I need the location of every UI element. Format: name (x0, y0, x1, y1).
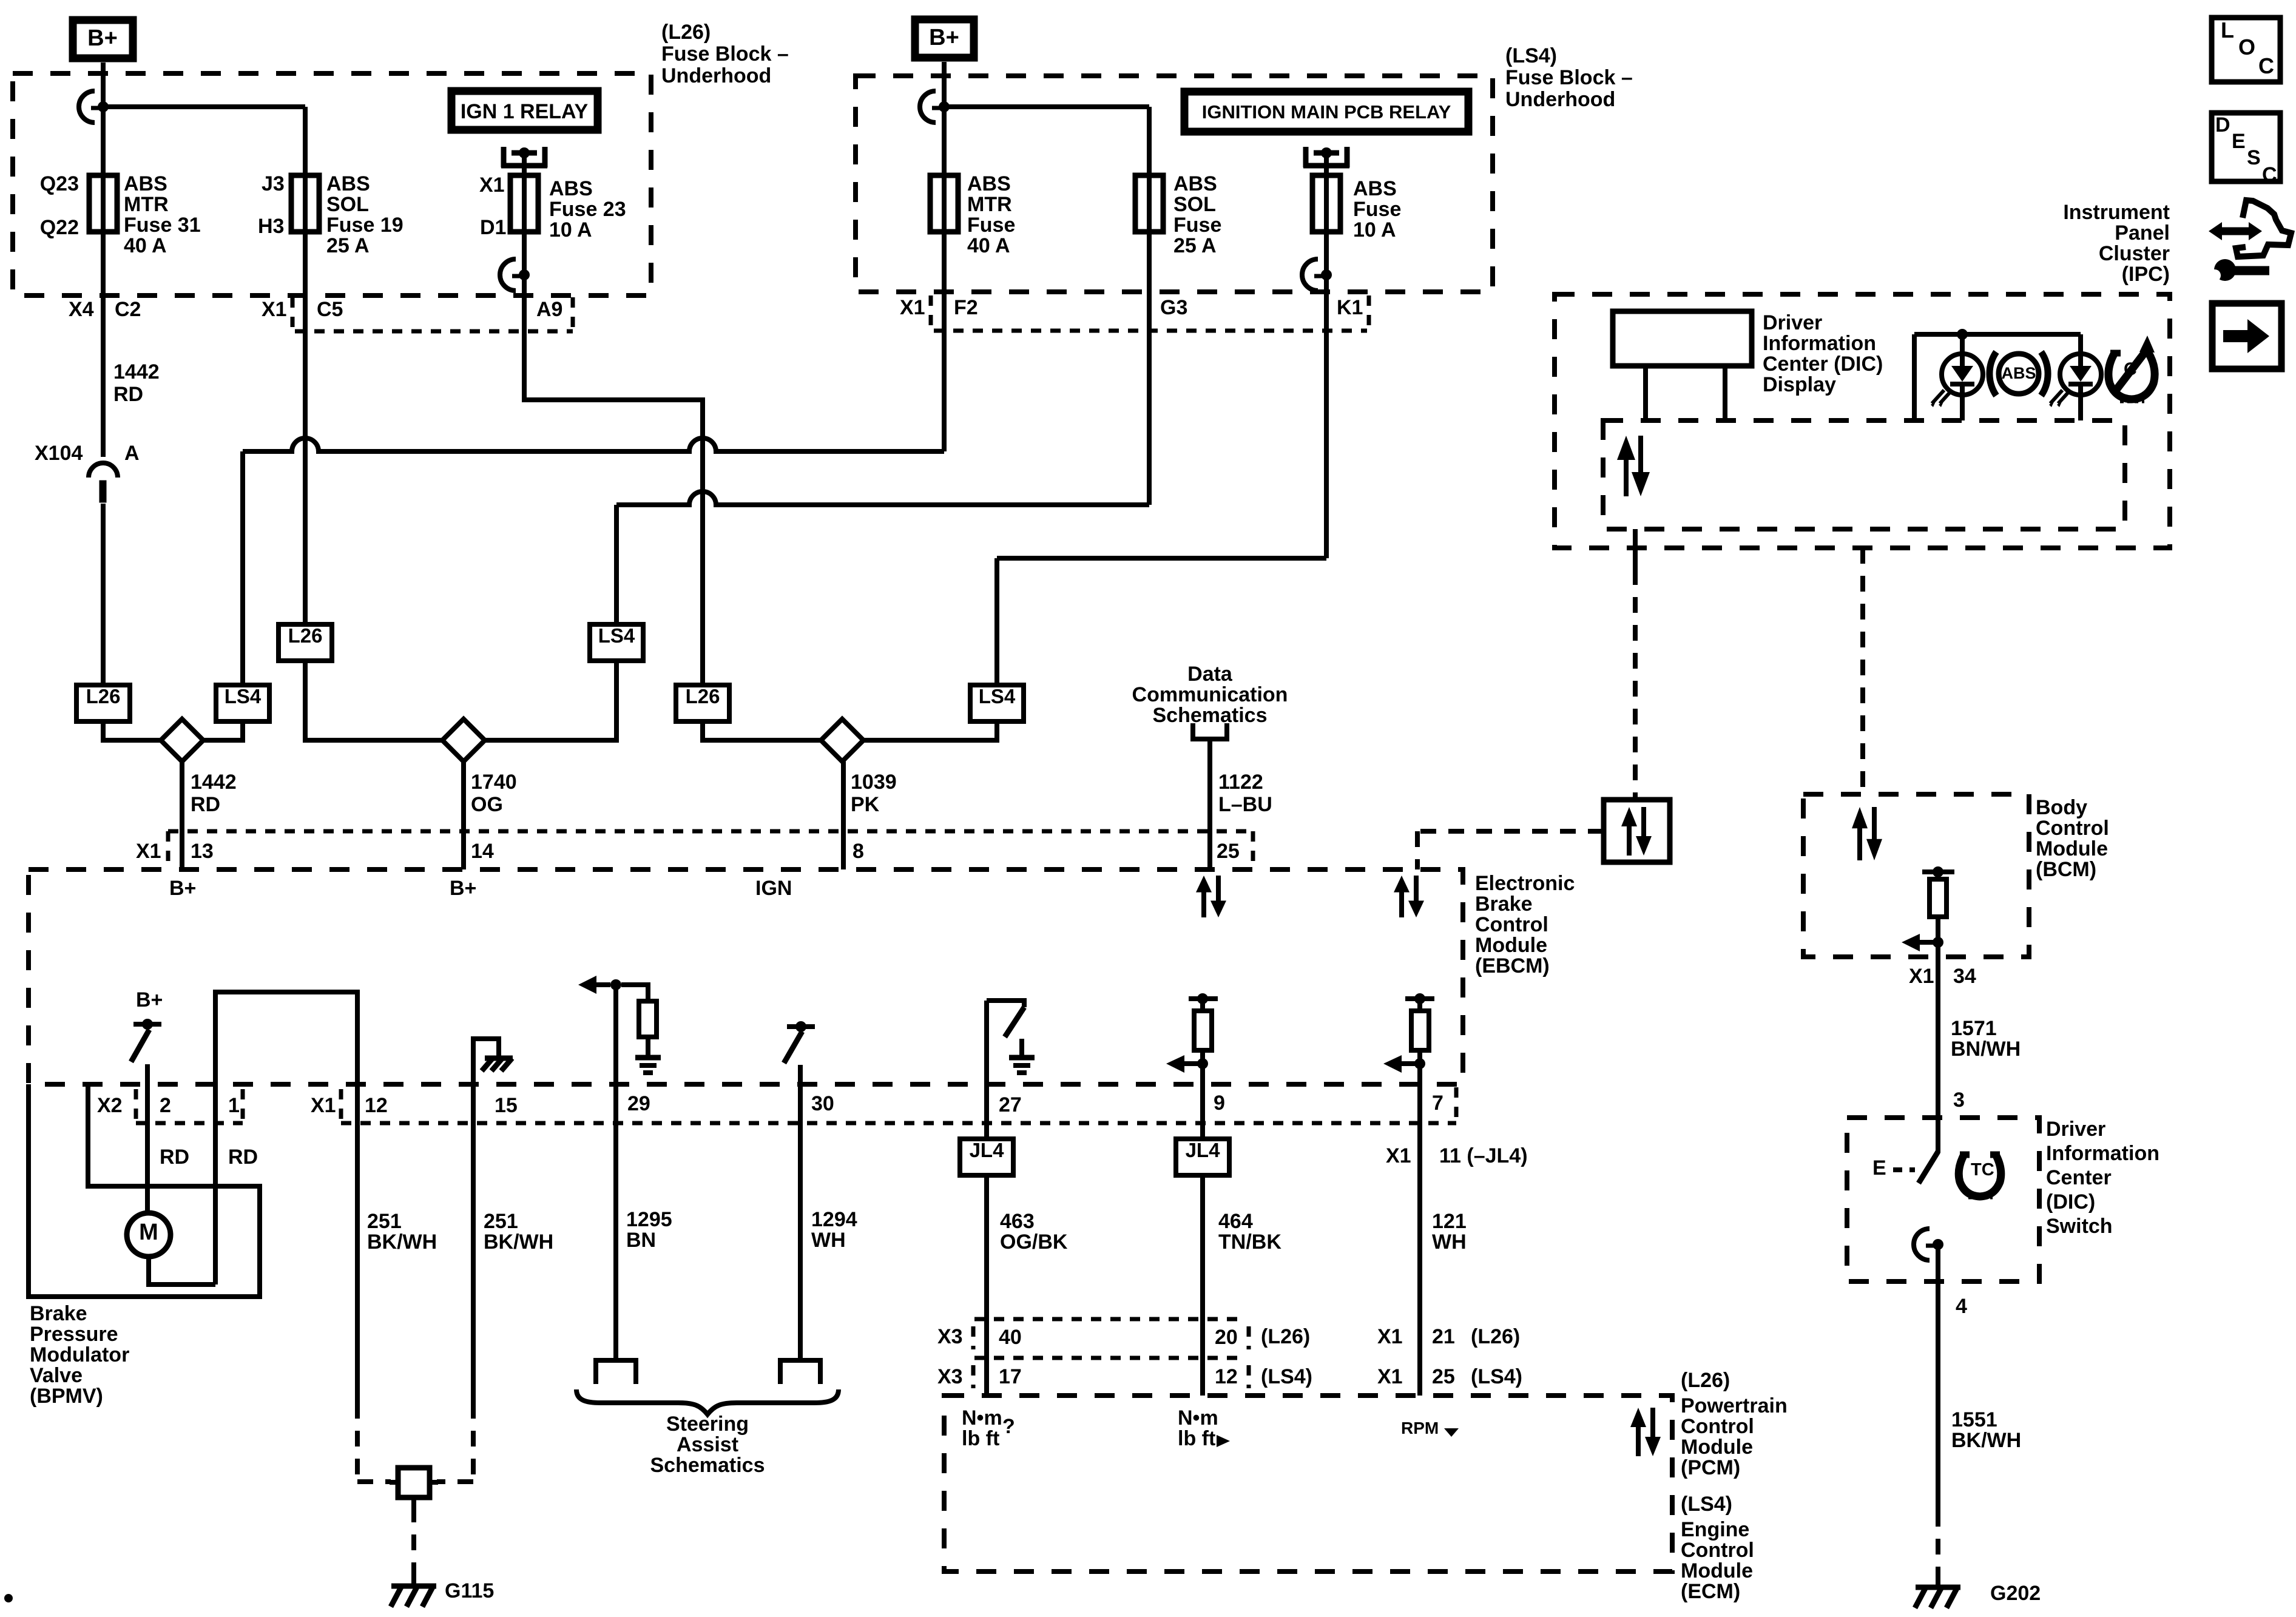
fuse block underhood dashed box (LS4) (856, 76, 1493, 292)
svg-text:Driver: Driver (1763, 311, 1822, 334)
wire LS4 tag column up to feed (240, 451, 245, 685)
node LS4 B+ junction (939, 101, 950, 112)
EBCM pin 9 internal resistor with level arrow (1189, 996, 1218, 1001)
wire relay contact to ABS Fuse 23 (522, 153, 527, 175)
svg-text:Fuse Block –: Fuse Block – (1505, 66, 1633, 89)
svg-text:Fuse: Fuse (1173, 214, 1221, 237)
connector arc below fuse 23 (500, 259, 516, 291)
wire horizontal feed 2 to LS4 tag 2 (with wire hop) (616, 491, 1149, 505)
svg-text:B+: B+ (929, 25, 959, 50)
Powertrain/Engine control module dashed box (PCM/ECM) (944, 1396, 1672, 1571)
svg-text:OG: OG (471, 793, 503, 816)
legend box DESC (2212, 113, 2280, 181)
svg-text:D1: D1 (480, 216, 506, 239)
svg-text:Q23: Q23 (40, 172, 79, 195)
fuse LS4 ABS MTR Fuse 40A (942, 175, 947, 232)
ground G115 (411, 1574, 416, 1585)
wire EBCM pin 7 / 121 WH down to PCM (1417, 1064, 1422, 1396)
svg-text:X4: X4 (69, 298, 94, 321)
svg-text:Control: Control (2036, 817, 2109, 840)
svg-text:Center (DIC): Center (DIC) (1763, 353, 1883, 376)
wire switch to BPMV pin 2 (145, 1064, 150, 1213)
svg-text:RD: RD (160, 1146, 189, 1169)
svg-text:S: S (2247, 146, 2261, 169)
wire fuse 23 to lower relay connector (522, 232, 527, 275)
svg-text:MTR: MTR (124, 193, 169, 216)
svg-text:25 A: 25 A (326, 234, 370, 257)
svg-text:B+: B+ (136, 988, 163, 1011)
svg-text:11 (–JL4): 11 (–JL4) (1439, 1144, 1528, 1167)
svg-text:Control: Control (1681, 1539, 1754, 1562)
svg-text:13: 13 (191, 840, 214, 863)
svg-text:G202: G202 (1990, 1582, 2041, 1605)
wire junction down to ABS MTR fuse (101, 107, 106, 175)
svg-text:E: E (2232, 130, 2246, 153)
svg-text:Fuse 19: Fuse 19 (326, 214, 403, 237)
svg-text:1294: 1294 (811, 1208, 857, 1231)
svg-text:Switch: Switch (2046, 1215, 2113, 1238)
off-page bracket steering assist right (780, 1360, 820, 1384)
wire junction down to LS4 ABS MTR fuse (942, 107, 947, 175)
Brake Pressure Modulator Valve solid outline (BPMV) (29, 1084, 260, 1297)
svg-text:RD: RD (228, 1146, 258, 1169)
off-page bracket for data communication (1190, 723, 1195, 739)
svg-text:G3: G3 (1160, 296, 1187, 319)
svg-text:Instrument: Instrument (2063, 201, 2170, 224)
svg-text:(BCM): (BCM) (2036, 858, 2096, 881)
svg-text:ABS: ABS (549, 177, 593, 200)
svg-text:O: O (2238, 35, 2255, 59)
svg-text:X1: X1 (1909, 965, 1934, 988)
svg-text:X1: X1 (900, 296, 925, 319)
svg-text:14: 14 (471, 840, 494, 863)
svg-text:1551: 1551 (1951, 1408, 1997, 1431)
svg-text:1: 1 (228, 1094, 240, 1117)
svg-text:Module: Module (1681, 1559, 1753, 1582)
svg-text:RPM: RPM (1401, 1419, 1439, 1437)
svg-text:LS4: LS4 (979, 685, 1016, 707)
svg-text:OG/BK: OG/BK (1000, 1230, 1068, 1254)
junction diamond 1039 PK (821, 719, 863, 761)
power feed B+ terminal box (LS4) (915, 19, 974, 58)
svg-text:25: 25 (1217, 840, 1240, 863)
svg-text:E: E (1872, 1156, 1886, 1180)
EBCM X1 top connector dotted line (166, 831, 171, 862)
svg-text:Fuse 23: Fuse 23 (549, 198, 626, 221)
svg-text:3: 3 (1953, 1089, 1965, 1112)
svg-text:(BPMV): (BPMV) (30, 1385, 103, 1408)
svg-text:lb ft: lb ft (1178, 1427, 1215, 1450)
wire LS4 ABS fuse to lower connector (1324, 232, 1329, 275)
IPC data-link arrows (1624, 459, 1629, 496)
svg-text:RD: RD (191, 793, 220, 816)
wire 1571 BN/WH BCM to DIC switch (1936, 957, 1940, 1118)
svg-text:(LS4): (LS4) (1681, 1493, 1732, 1516)
svg-text:Brake: Brake (30, 1302, 87, 1325)
page artifact dot bottom left (4, 1594, 13, 1602)
brace for steering assist schematics (576, 1389, 839, 1414)
svg-text:L26: L26 (686, 685, 720, 707)
svg-text:WH: WH (1432, 1230, 1467, 1254)
svg-text:8: 8 (853, 840, 864, 863)
svg-text:251: 251 (484, 1210, 518, 1233)
svg-text:G115: G115 (445, 1579, 494, 1602)
svg-text:Fuse: Fuse (1353, 198, 1401, 221)
svg-text:(LS4): (LS4) (1471, 1365, 1522, 1388)
svg-text:BN/WH: BN/WH (1951, 1038, 2021, 1061)
EBCM pump motor relay contact bar (133, 1022, 161, 1027)
node indicator feed (1957, 329, 1968, 340)
svg-text:(LS4): (LS4) (1261, 1365, 1312, 1388)
wire L26 tag2 to diamond 2 (305, 661, 442, 740)
svg-text:463: 463 (1000, 1210, 1035, 1233)
svg-text:Communication: Communication (1132, 683, 1288, 706)
svg-text:12: 12 (365, 1094, 388, 1117)
svg-text:25 A: 25 A (1173, 234, 1217, 257)
wire EBCM pin 29 down (613, 985, 618, 1360)
wire X104 down to L26 splice tag (101, 504, 106, 685)
power feed B+ terminal box (L26) (73, 20, 133, 58)
svg-text:L: L (2221, 18, 2234, 42)
dashed data line to EBCM (1417, 829, 1604, 834)
svg-text:10 A: 10 A (1353, 218, 1396, 241)
relay contact for IGN 1 RELAY (501, 147, 507, 167)
svg-text:B+: B+ (87, 25, 118, 51)
svg-text:25: 25 (1432, 1365, 1455, 1388)
svg-text:Information: Information (1763, 332, 1876, 355)
svg-text:Fuse 31: Fuse 31 (124, 214, 201, 237)
svg-text:?: ? (1002, 1415, 1015, 1438)
Driver Information Center switch dashed box (DIC) (1847, 1118, 2039, 1281)
indicator LED TC warning (2060, 354, 2101, 395)
wire G3 down to horizontal feed 2 (1147, 232, 1152, 505)
svg-text:Modulator: Modulator (30, 1343, 129, 1366)
ground bars EBCM pin27 branch (1019, 1039, 1024, 1056)
IPC data-link stem (1633, 529, 1638, 569)
splice tag L26 on 1039 PK wire (676, 685, 729, 721)
svg-text:7: 7 (1432, 1092, 1443, 1115)
splice tag LS4 on 1740 OG wire (590, 624, 643, 661)
legend icon vehicle with arrow and wrench (2236, 200, 2291, 257)
wire diamond1 to EBCM pin 13 (180, 761, 184, 869)
svg-text:L–BU: L–BU (1218, 793, 1272, 816)
wire LS4 tag2 to diamond 2 (485, 661, 616, 740)
EBCM internal data-link arrows at pin 25 (1201, 891, 1206, 917)
svg-text:K1: K1 (1337, 296, 1363, 319)
splice tag JL4 on 463 wire (960, 1139, 1013, 1175)
svg-text:Powertrain: Powertrain (1681, 1394, 1788, 1417)
svg-text:Module: Module (1681, 1436, 1753, 1459)
svg-text:BK/WH: BK/WH (484, 1230, 553, 1254)
svg-text:(PCM): (PCM) (1681, 1456, 1740, 1479)
svg-text:Schematics: Schematics (650, 1454, 765, 1477)
EBCM pin 27 internal switch to ground (987, 1001, 1024, 1007)
wire relay contact to LS4 ABS Fuse (1324, 153, 1329, 175)
fuse block underhood dashed box (L26) (13, 73, 651, 295)
svg-text:10 A: 10 A (549, 218, 592, 241)
svg-text:(EBCM): (EBCM) (1475, 954, 1550, 977)
svg-text:Engine: Engine (1681, 1518, 1749, 1541)
EBCM pin 30 internal switch (787, 1024, 815, 1029)
svg-text:Data: Data (1187, 663, 1233, 686)
svg-text:9: 9 (1214, 1092, 1225, 1115)
svg-text:2: 2 (160, 1094, 171, 1117)
wire junction to ABS SOL fuse branch (103, 104, 305, 109)
svg-text:D: D (2215, 113, 2230, 137)
svg-text:40: 40 (999, 1326, 1022, 1349)
resistor EBCM pin29 branch (639, 1001, 657, 1037)
svg-text:Valve: Valve (30, 1364, 83, 1387)
svg-text:ABS: ABS (967, 172, 1011, 195)
dashed data line IPC to BCM (1860, 548, 1865, 794)
wire junction to LS4 ABS SOL fuse (944, 104, 1149, 109)
icon TC off (2109, 352, 2155, 399)
svg-text:lb ft: lb ft (962, 1427, 999, 1450)
legend box right arrow (2212, 303, 2281, 369)
DIC display rectangle (1613, 311, 1752, 366)
svg-text:Module: Module (2036, 837, 2108, 860)
svg-text:C: C (2262, 163, 2277, 186)
junction diamond 1442 RD (161, 719, 203, 761)
switch blade pump motor relay (131, 1030, 149, 1062)
svg-text:27: 27 (999, 1093, 1022, 1116)
svg-text:X104: X104 (35, 442, 83, 465)
svg-text:X1: X1 (1386, 1144, 1411, 1167)
splice tag L26 on 1740 OG wire (279, 624, 332, 661)
svg-text:251: 251 (367, 1210, 402, 1233)
IPC inner dashed box (1603, 420, 2125, 529)
relay label box IGNITION MAIN PCB RELAY (1184, 92, 1468, 132)
relay label box IGN 1 RELAY (451, 91, 598, 130)
svg-text:(ECM): (ECM) (1681, 1580, 1740, 1603)
EBCM pin 29 internal: signal arrow and resistor to ground (578, 976, 596, 994)
pump motor M (127, 1213, 171, 1257)
svg-text:X1: X1 (136, 840, 161, 863)
node LS4 ABS fuse output junction (1321, 269, 1332, 280)
svg-text:121: 121 (1432, 1210, 1467, 1233)
svg-text:ABS: ABS (1173, 172, 1217, 195)
indicator LED ABS warning (1942, 354, 1983, 395)
svg-text:Underhood: Underhood (661, 64, 771, 87)
Instrument Panel Cluster dashed box (IPC) (1555, 294, 2170, 548)
connector arc at LS4 B+ junction (920, 91, 936, 123)
svg-text:BN: BN (626, 1229, 656, 1252)
legend box LOC (2212, 18, 2280, 82)
svg-text:N•m: N•m (1178, 1406, 1218, 1430)
splice tag LS4 on 1039 PK wire (970, 685, 1024, 721)
svg-text:(IPC): (IPC) (2122, 263, 2170, 286)
svg-text:TC: TC (1971, 1160, 1994, 1180)
fuse X1/D1 ABS Fuse 23 10A (522, 175, 527, 232)
icon (ABS) (1990, 352, 1996, 396)
svg-text:JL4: JL4 (970, 1139, 1005, 1161)
svg-text:F2: F2 (954, 296, 978, 319)
splice tag LS4 on 1442 RD wire (216, 685, 269, 721)
svg-text:464: 464 (1218, 1210, 1253, 1233)
PCM internal data-link arrows (1636, 1426, 1641, 1456)
svg-text:Display: Display (1763, 373, 1836, 396)
svg-text:Control: Control (1681, 1415, 1754, 1438)
svg-text:SOL: SOL (1173, 193, 1216, 216)
svg-text:Control: Control (1475, 913, 1548, 936)
svg-text:PK: PK (851, 793, 880, 816)
splice tag L26 on 1442 RD wire (76, 685, 130, 721)
wire 1551 BK/WH to ground (1936, 1281, 1940, 1511)
EBCM pin 15 internal chassis ground (473, 1039, 499, 1084)
IPC indicator feed wire (1914, 332, 2081, 337)
svg-text:12: 12 (1215, 1365, 1238, 1388)
svg-text:C: C (2258, 53, 2274, 78)
svg-text:ABS: ABS (124, 172, 167, 195)
svg-text:29: 29 (627, 1092, 650, 1115)
fuse J3/H3 ABS SOL Fuse 19 25A (303, 175, 308, 232)
svg-text:B+: B+ (450, 877, 476, 900)
svg-text:J3: J3 (262, 172, 285, 195)
off-page bracket steering assist left (596, 1360, 636, 1384)
svg-text:ABS: ABS (326, 172, 370, 195)
svg-text:40 A: 40 A (124, 234, 167, 257)
svg-text:X1: X1 (262, 298, 287, 321)
ground G202 (1936, 1575, 1940, 1586)
svg-text:A9: A9 (536, 298, 562, 321)
wire diamond3 to EBCM pin 8 (841, 761, 846, 869)
svg-text:Center: Center (2046, 1166, 2112, 1189)
svg-text:Body: Body (2036, 796, 2087, 819)
svg-text:Brake: Brake (1475, 893, 1533, 916)
X3 connector row 2 dotted outline (971, 1365, 976, 1388)
svg-text:(DIC): (DIC) (2046, 1190, 2095, 1214)
svg-text:Pressure: Pressure (30, 1323, 118, 1346)
svg-text:X3: X3 (937, 1325, 963, 1348)
svg-text:Driver: Driver (2046, 1118, 2105, 1141)
svg-text:MTR: MTR (967, 193, 1012, 216)
svg-text:Underhood: Underhood (1505, 88, 1615, 111)
connector arc at L26 B+ junction (79, 91, 95, 123)
svg-text:M: M (139, 1220, 158, 1245)
svg-text:X1: X1 (311, 1094, 336, 1117)
connector arc inside DIC switch (1914, 1229, 1930, 1260)
svg-text:(L26): (L26) (1471, 1325, 1520, 1348)
svg-text:TN/BK: TN/BK (1218, 1230, 1281, 1254)
svg-text:Fuse: Fuse (967, 214, 1015, 237)
svg-text:15: 15 (495, 1094, 518, 1117)
svg-text:C2: C2 (115, 298, 141, 321)
svg-text:1122: 1122 (1218, 771, 1263, 794)
wire LS4 tag2 column (614, 505, 619, 624)
svg-text:(L26): (L26) (1681, 1369, 1730, 1392)
svg-text:1740: 1740 (471, 771, 517, 794)
fuse LS4 ABS SOL Fuse 25A (1147, 175, 1152, 232)
wires DIC display legs (1643, 366, 1648, 420)
wire horizontal feed to LS4 tag (with wire hops) (243, 438, 944, 451)
node DIC switch output (1933, 1239, 1943, 1250)
data link connector box with arrows (1604, 800, 1670, 862)
svg-text:B+: B+ (169, 877, 196, 900)
svg-text:C5: C5 (317, 298, 343, 321)
Body Control Module dashed box (BCM) (1803, 794, 2029, 957)
svg-text:RD: RD (113, 383, 143, 406)
svg-text:IGN 1 RELAY: IGN 1 RELAY (461, 100, 589, 123)
svg-text:WH: WH (811, 1229, 846, 1252)
Electronic Brake Control Module dashed box (EBCM) (29, 869, 1463, 1084)
fuse LS4 ABS Fuse 10A (1324, 175, 1329, 232)
wire ABS MTR fuse to C2 pin and down (101, 232, 106, 457)
wire L26 tag to diamond 1 (103, 721, 161, 740)
svg-text:Q22: Q22 (40, 216, 79, 239)
wire horizontal feed 3 to LS4 tag 3 (997, 556, 1326, 561)
node pump motor switch (142, 1019, 153, 1030)
svg-text:1442: 1442 (191, 771, 237, 794)
svg-text:4: 4 (1956, 1295, 1967, 1318)
svg-text:LS4: LS4 (598, 624, 635, 647)
wire 251 BK/WH from pin 15 (471, 1084, 476, 1403)
svg-text:40 A: 40 A (967, 234, 1010, 257)
wire B+ into L26 block (101, 62, 106, 107)
splice block to G115 (398, 1468, 430, 1497)
wire A9 down and over to L26 tag column (524, 275, 703, 685)
svg-text:Cluster: Cluster (2099, 242, 2170, 265)
svg-text:1442: 1442 (113, 360, 160, 383)
wire LS4 tag to diamond 1 (203, 721, 243, 740)
ground bars EBCM pin29 branch (635, 1055, 661, 1061)
wire LS4 tag3 to diamond 3 (863, 721, 997, 740)
wire diamond2 to EBCM pin 14 (461, 761, 466, 869)
junction diamond 1740 OG (442, 719, 485, 761)
wire K1 down to horizontal feed 3 (1324, 275, 1329, 558)
svg-text:Electronic: Electronic (1475, 872, 1575, 895)
svg-text:N•m: N•m (962, 1406, 1002, 1430)
wire B+ into LS4 block (942, 62, 947, 107)
relay contact for IGNITION MAIN PCB RELAY (1303, 147, 1309, 167)
wire EBCM pin 27 down to PCM (984, 1001, 989, 1396)
DIC switch blade (1919, 1152, 1938, 1183)
wire ABS SOL fuse down to L26 tag (303, 232, 308, 624)
svg-text:1571: 1571 (1951, 1017, 1997, 1040)
svg-text:(L26): (L26) (1261, 1325, 1310, 1348)
svg-text:IGN: IGN (755, 877, 792, 900)
svg-text:Fuse Block –: Fuse Block – (661, 42, 789, 66)
svg-text:X3: X3 (937, 1365, 963, 1388)
node L26 B+ junction (98, 101, 109, 112)
svg-text:SOL: SOL (326, 193, 369, 216)
node fuse 23 output junction (519, 269, 530, 280)
BCM internal data-link arrows (1857, 827, 1862, 860)
svg-text:(L26): (L26) (661, 21, 711, 44)
svg-text:Panel: Panel (2115, 221, 2170, 245)
svg-text:JL4: JL4 (1186, 1139, 1221, 1161)
EBCM pin 7 internal resistor with level arrow (1405, 996, 1434, 1001)
svg-text:A: A (124, 442, 140, 465)
connector arc below LS4 ABS fuse (1302, 259, 1318, 291)
svg-text:L26: L26 (86, 685, 121, 707)
svg-text:L26: L26 (288, 624, 323, 647)
EBCM internal data-link arrows at serial data entry (1399, 891, 1404, 917)
wire pin 3 into DIC switch (1936, 1118, 1940, 1153)
svg-text:ABS: ABS (1353, 177, 1397, 200)
svg-text:21: 21 (1432, 1325, 1455, 1348)
svg-text:30: 30 (811, 1092, 834, 1115)
svg-text:X1: X1 (1377, 1365, 1403, 1388)
svg-text:Schematics: Schematics (1153, 704, 1268, 727)
wire L26 tag3 to diamond 3 (703, 721, 821, 740)
svg-text:IGNITION MAIN PCB RELAY: IGNITION MAIN PCB RELAY (1202, 101, 1451, 123)
wire F2 down to horizontal feed (942, 232, 947, 451)
wire BPMV pin 1 to motor loop (149, 1257, 215, 1284)
svg-text:LS4: LS4 (225, 685, 262, 707)
svg-text:1295: 1295 (626, 1208, 672, 1231)
svg-text:BK/WH: BK/WH (1951, 1429, 2021, 1452)
svg-text:ABS: ABS (2001, 364, 2036, 382)
